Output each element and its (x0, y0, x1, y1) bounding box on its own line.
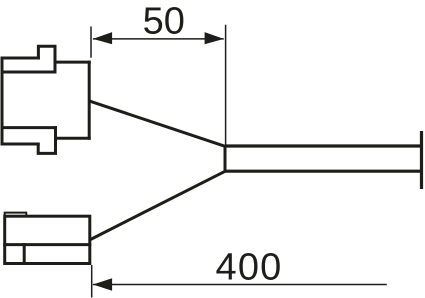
dimension 400 line (93, 284, 387, 286)
dimension 400 extension line (91, 265, 93, 298)
connector C1 right edge (88, 62, 91, 138)
dimension 400 left arrowhead (93, 278, 112, 291)
dimension 50 line (93, 38, 224, 40)
dimension 50 right arrowhead (205, 32, 224, 44)
connector C1 (upper plug) body outline (2, 46, 89, 153)
svg-text:50: 50 (143, 1, 185, 43)
cable bottom line (225, 170, 422, 173)
connector C2 (lower plug) (5, 216, 90, 263)
connector C2 body rectangle (5, 216, 90, 263)
dimension 50 left arrowhead (93, 32, 112, 44)
connector C1 main body top edge (55, 61, 89, 64)
connector C1 main body bottom edge (56, 137, 90, 140)
wire from C2 to cable junction (91, 171, 226, 239)
connector C1 bottom latch tab (38, 128, 55, 154)
cable junction vertical edge (224, 146, 227, 171)
dimension 50 right extension line (225, 25, 227, 146)
connector C1 top latch tab (38, 46, 55, 72)
connector C1 inner top line (2, 71, 55, 74)
connector C2 inner horizontal line (5, 243, 90, 246)
connector C2 inner vertical line (23, 245, 26, 264)
connector C1 inner bottom line (2, 126, 56, 129)
connector C1 left/top/bottom outline (2, 58, 38, 144)
connector C2 top latch tab (5, 213, 27, 217)
cable top line (225, 144, 422, 147)
svg-text:400: 400 (215, 246, 282, 288)
cable end bar (420, 131, 423, 189)
dimension 50 left extension line (90, 27, 92, 58)
wire from C1 to cable junction (89, 101, 225, 146)
